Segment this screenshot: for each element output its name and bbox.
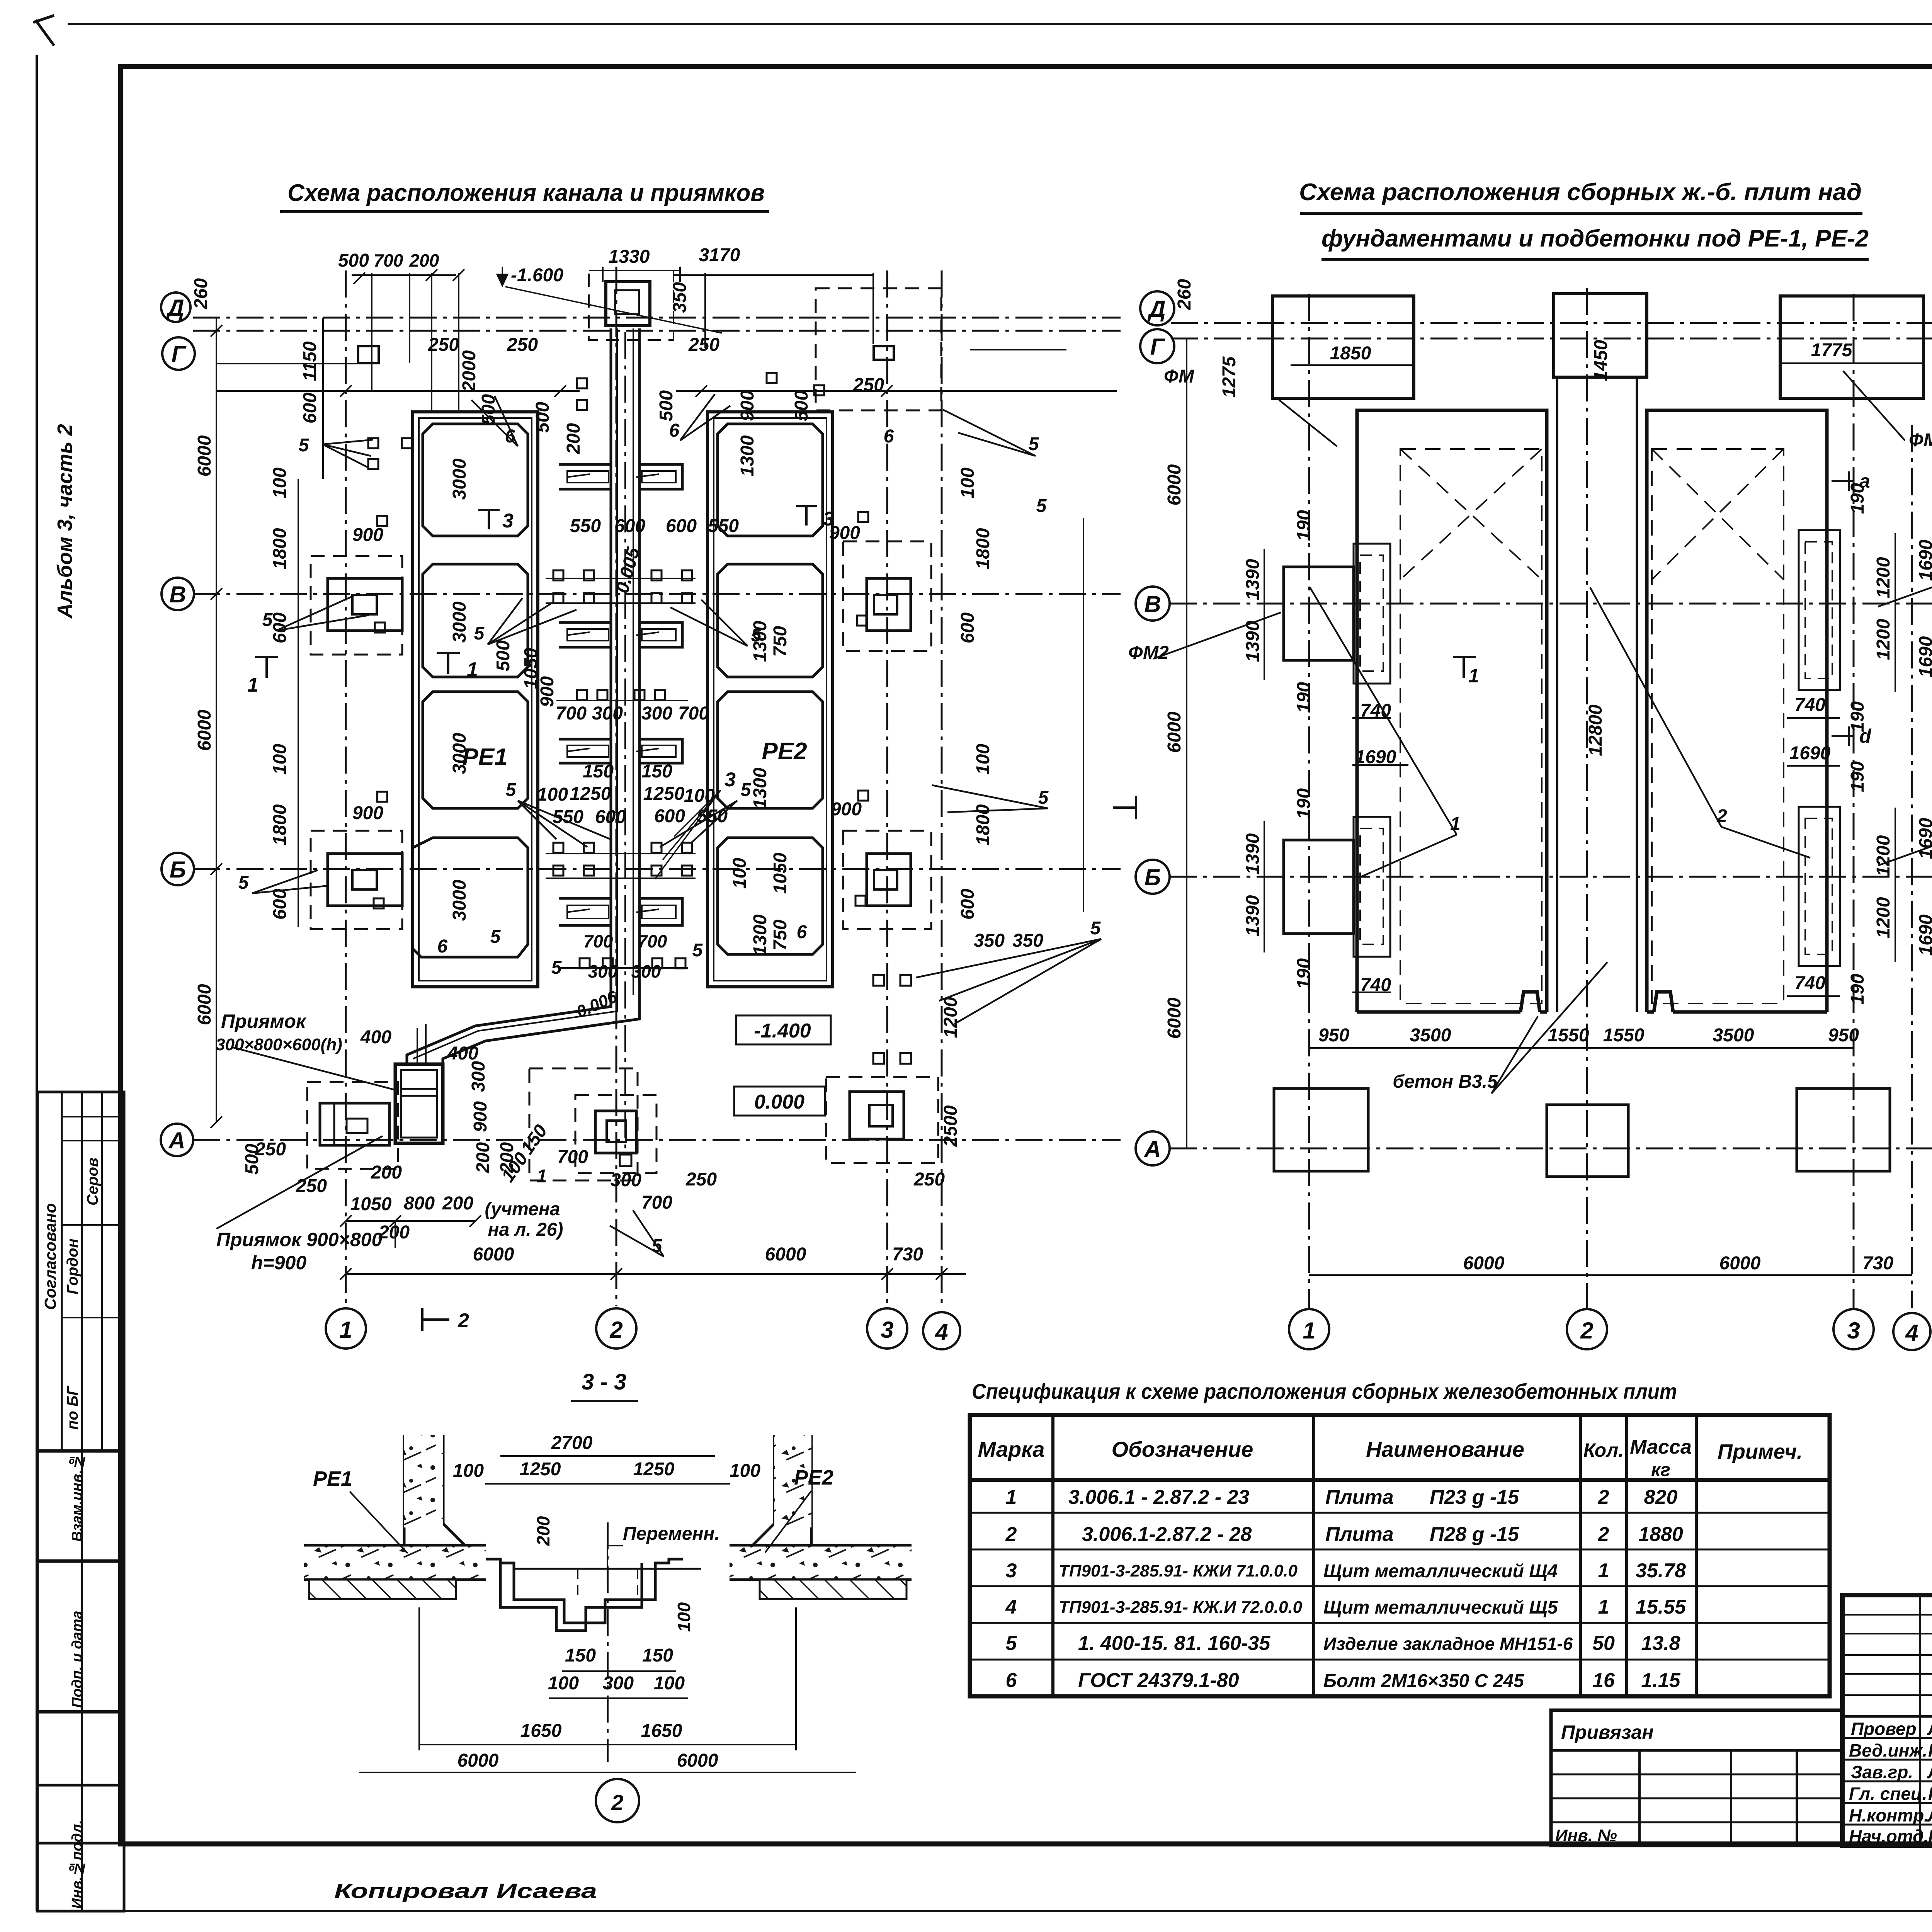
svg-text:350: 350 — [1012, 930, 1043, 951]
svg-text:3: 3 — [502, 510, 514, 532]
svg-text:400: 400 — [360, 1027, 391, 1048]
svg-text:1850: 1850 — [1330, 343, 1371, 364]
svg-text:1550: 1550 — [1603, 1025, 1645, 1046]
svg-text:1390: 1390 — [1243, 833, 1263, 874]
svg-text:900: 900 — [352, 525, 383, 545]
title block (stamp) — [334, 1595, 1932, 1903]
svg-text:1880: 1880 — [1638, 1523, 1683, 1546]
svg-text:100: 100 — [730, 1461, 760, 1481]
svg-text:200: 200 — [378, 1222, 410, 1243]
svg-text:550: 550 — [708, 516, 739, 536]
svg-text:a: a — [1859, 470, 1870, 492]
svg-text:3: 3 — [1847, 1318, 1860, 1344]
privyazan small table — [1551, 1710, 1842, 1845]
svg-text:250: 250 — [296, 1176, 327, 1196]
svg-text:6000: 6000 — [677, 1750, 718, 1771]
svg-text:190: 190 — [1847, 974, 1868, 1005]
svg-text:500: 500 — [791, 390, 812, 421]
svg-text:Серов: Серов — [84, 1158, 101, 1206]
svg-text:Инв. №: Инв. № — [1555, 1826, 1617, 1845]
svg-text:Щит металлический Щ5: Щит металлический Щ5 — [1323, 1597, 1558, 1618]
svg-text:Г: Г — [1150, 334, 1166, 360]
svg-text:Подп. и дата: Подп. и дата — [69, 1611, 85, 1708]
svg-text:1: 1 — [1303, 1318, 1315, 1344]
svg-text:3500: 3500 — [1410, 1025, 1451, 1046]
svg-text:3000: 3000 — [449, 733, 470, 774]
svg-text:2: 2 — [609, 1317, 622, 1343]
svg-text:1800: 1800 — [973, 528, 993, 569]
svg-text:П23 g -15: П23 g -15 — [1430, 1486, 1519, 1509]
svg-text:750: 750 — [770, 626, 791, 657]
svg-text:Спецификация к схеме располо: Спецификация к схеме расположения сборны… — [972, 1379, 1677, 1403]
svg-text:1050: 1050 — [350, 1194, 392, 1214]
svg-text:Провер: Провер — [1851, 1719, 1917, 1739]
PE2 block — [707, 412, 833, 987]
svg-text:1330: 1330 — [609, 247, 650, 267]
svg-text:250: 250 — [685, 1169, 717, 1190]
svg-text:300: 300 — [468, 1061, 489, 1092]
svg-text:190: 190 — [1294, 510, 1314, 541]
svg-text:0.000: 0.000 — [754, 1091, 804, 1113]
svg-text:2: 2 — [457, 1310, 469, 1332]
svg-text:13.8: 13.8 — [1641, 1632, 1680, 1655]
svg-text:200: 200 — [563, 423, 584, 454]
svg-text:1200: 1200 — [1873, 897, 1894, 938]
svg-text:260: 260 — [191, 278, 211, 310]
svg-text:200: 200 — [442, 1193, 473, 1214]
svg-text:600: 600 — [270, 612, 290, 643]
svg-text:6000: 6000 — [457, 1750, 499, 1771]
svg-text:900: 900 — [831, 799, 862, 820]
svg-text:5: 5 — [299, 435, 310, 456]
svg-text:Капустин: Капустин — [1928, 1740, 1932, 1760]
svg-text:2: 2 — [611, 1790, 623, 1815]
svg-text:6000: 6000 — [1164, 711, 1185, 753]
svg-text:200: 200 — [371, 1162, 402, 1183]
svg-text:А: А — [168, 1128, 185, 1153]
svg-text:П28 g -15: П28 g -15 — [1430, 1523, 1519, 1546]
small embedded squares — [368, 373, 911, 1166]
section marks — [255, 506, 817, 1331]
svg-text:300×800×600(h): 300×800×600(h) — [216, 1035, 342, 1054]
svg-text:6: 6 — [669, 420, 680, 441]
plan 1 dimensions — [191, 245, 1117, 1332]
svg-text:ФМ: ФМ — [1909, 430, 1932, 451]
svg-text:1: 1 — [1598, 1560, 1609, 1582]
svg-text:ФМ2: ФМ2 — [1128, 643, 1169, 663]
svg-text:600: 600 — [300, 393, 320, 423]
svg-text:600: 600 — [614, 516, 645, 536]
svg-text:1: 1 — [1006, 1486, 1017, 1509]
svg-text:16: 16 — [1592, 1669, 1615, 1692]
svg-text:1250: 1250 — [633, 1459, 675, 1480]
svg-text:250: 250 — [913, 1169, 945, 1190]
svg-text:190: 190 — [1847, 761, 1868, 792]
svg-text:6000: 6000 — [1164, 464, 1185, 505]
dim texts — [1128, 340, 1932, 1274]
svg-text:Зав.гр.: Зав.гр. — [1851, 1762, 1913, 1782]
main slab halves — [1357, 410, 1827, 1012]
channel bottom elbow to pit — [395, 995, 639, 1143]
svg-text:5: 5 — [692, 940, 703, 961]
svg-text:Примеч.: Примеч. — [1718, 1440, 1803, 1463]
boxed level labels — [736, 1015, 831, 1044]
bottom dim line — [346, 1273, 966, 1275]
svg-text:100: 100 — [674, 1602, 694, 1632]
svg-text:(учтена: (учтена — [485, 1199, 560, 1219]
priyamok labels — [216, 1010, 382, 1274]
svg-text:12800: 12800 — [1585, 704, 1606, 756]
svg-text:В: В — [169, 582, 186, 607]
svg-text:Н.контр.: Н.контр. — [1849, 1805, 1929, 1825]
svg-text:2500: 2500 — [940, 1105, 961, 1147]
svg-text:5: 5 — [1006, 1632, 1017, 1655]
svg-text:3: 3 — [1006, 1560, 1017, 1582]
svg-text:1050: 1050 — [770, 852, 791, 894]
svg-text:Альбом 3, часть 2: Альбом 3, часть 2 — [53, 424, 77, 619]
svg-text:150: 150 — [641, 761, 672, 782]
central channel — [486, 1559, 701, 1631]
svg-text:600: 600 — [654, 806, 685, 827]
svg-text:190: 190 — [1294, 958, 1314, 989]
svg-text:Масса: Масса — [1630, 1436, 1692, 1458]
svg-text:300: 300 — [592, 703, 623, 724]
svg-text:1250: 1250 — [520, 1459, 561, 1480]
svg-text:260: 260 — [1174, 279, 1195, 310]
svg-text:1: 1 — [1598, 1596, 1609, 1618]
svg-text:ТП901-3-285.91- КЖИ 71.0.0.0: ТП901-3-285.91- КЖИ 71.0.0.0 — [1059, 1561, 1298, 1580]
svg-text:150: 150 — [642, 1645, 673, 1666]
svg-text:100: 100 — [730, 858, 750, 889]
svg-text:100: 100 — [973, 744, 993, 775]
svg-text:100: 100 — [654, 1673, 685, 1694]
svg-text:6000: 6000 — [765, 1244, 806, 1265]
central channel lines — [1557, 377, 1637, 1012]
svg-text:Обозначение: Обозначение — [1112, 1437, 1253, 1461]
svg-text:150: 150 — [565, 1645, 596, 1666]
axes — [1170, 288, 1932, 1308]
leader fans — [216, 394, 1101, 1257]
svg-text:1450: 1450 — [1591, 340, 1611, 381]
svg-text:по БГ: по БГ — [64, 1385, 81, 1430]
svg-text:15.55: 15.55 — [1636, 1596, 1686, 1618]
svg-text:740: 740 — [1794, 973, 1825, 993]
svg-text:250: 250 — [507, 335, 538, 355]
svg-text:5: 5 — [1038, 787, 1049, 808]
svg-text:700: 700 — [583, 931, 613, 951]
PE1 block outer double rect — [413, 412, 538, 987]
svg-text:1150: 1150 — [300, 341, 320, 381]
svg-text:1. 400-15. 81. 160-35: 1. 400-15. 81. 160-35 — [1078, 1632, 1270, 1655]
svg-text:4: 4 — [1905, 1320, 1918, 1346]
inner dashed with diagonals — [1400, 449, 1784, 1003]
svg-text:600: 600 — [957, 612, 978, 643]
svg-text:250: 250 — [688, 335, 719, 355]
svg-text:Инв.№подл.: Инв.№подл. — [69, 1820, 85, 1909]
svg-text:2: 2 — [1598, 1523, 1609, 1546]
right column + slab mirrored — [730, 1435, 912, 1599]
svg-text:6000: 6000 — [194, 435, 215, 476]
svg-text:1200: 1200 — [940, 997, 961, 1038]
svg-text:0.006: 0.006 — [573, 987, 620, 1022]
svg-text:Пронин: Пронин — [1928, 1784, 1932, 1804]
svg-text:1: 1 — [339, 1317, 352, 1343]
pilasters left — [1284, 530, 1840, 966]
svg-text:700: 700 — [641, 1192, 672, 1213]
svg-text:500: 500 — [656, 390, 677, 421]
svg-text:1300: 1300 — [750, 914, 770, 956]
svg-text:700: 700 — [638, 931, 667, 951]
svg-text:900: 900 — [352, 803, 383, 823]
svg-text:300: 300 — [603, 1673, 634, 1694]
svg-text:1250: 1250 — [570, 784, 611, 804]
column footprints left side — [307, 288, 941, 1173]
svg-text:5: 5 — [238, 872, 249, 893]
svg-text:d: d — [1859, 725, 1872, 747]
svg-text:6000: 6000 — [1719, 1253, 1761, 1274]
axis lines horizontal — [193, 318, 1121, 1140]
svg-text:1390: 1390 — [1243, 895, 1263, 936]
svg-text:-1.400: -1.400 — [754, 1020, 811, 1042]
svg-text:1.15: 1.15 — [1641, 1669, 1680, 1692]
svg-text:1690: 1690 — [1916, 539, 1932, 581]
svg-text:550: 550 — [570, 516, 601, 536]
svg-text:Переменн.: Переменн. — [623, 1524, 720, 1544]
svg-text:820: 820 — [1644, 1486, 1678, 1509]
dims — [453, 1433, 760, 1771]
bottom squares — [1274, 1088, 1890, 1177]
left small grid — [1842, 1614, 1932, 1616]
svg-text:950: 950 — [1318, 1025, 1349, 1046]
svg-text:6: 6 — [884, 426, 894, 447]
svg-text:Копировал Исаева: Копировал Исаева — [334, 1879, 597, 1903]
svg-text:6000: 6000 — [473, 1244, 514, 1265]
svg-text:2: 2 — [1005, 1523, 1017, 1546]
svg-text:5: 5 — [551, 957, 562, 978]
svg-text:1800: 1800 — [270, 804, 290, 845]
svg-text:900: 900 — [470, 1101, 491, 1132]
svg-text:1200: 1200 — [1873, 619, 1894, 660]
svg-text:730: 730 — [1862, 1253, 1893, 1274]
svg-text:РЕ2: РЕ2 — [762, 738, 807, 765]
svg-text:Б: Б — [1145, 864, 1161, 890]
top dim lines — [352, 274, 456, 276]
svg-text:1250: 1250 — [643, 784, 685, 804]
svg-text:Гордон: Гордон — [64, 1238, 81, 1294]
svg-text:ГОСТ 24379.1-80: ГОСТ 24379.1-80 — [1078, 1669, 1239, 1692]
drawing titles — [280, 179, 1932, 1403]
svg-text:6000: 6000 — [194, 984, 215, 1025]
svg-text:6: 6 — [797, 922, 807, 942]
svg-text:Кол.: Кол. — [1583, 1439, 1624, 1461]
svg-text:Б: Б — [170, 857, 186, 883]
svg-text:1300: 1300 — [750, 767, 770, 809]
svg-text:Приямок: Приямок — [221, 1010, 307, 1032]
svg-text:50: 50 — [1592, 1632, 1615, 1655]
svg-text:Согласовано: Согласовано — [41, 1203, 60, 1310]
svg-text:600: 600 — [666, 516, 697, 536]
svg-text:190: 190 — [1294, 788, 1314, 819]
svg-text:740: 740 — [1794, 695, 1825, 715]
left margin table and album text — [37, 424, 124, 1911]
svg-text:2: 2 — [1598, 1486, 1609, 1509]
vertical dim chains — [216, 318, 217, 1122]
svg-text:1690: 1690 — [1355, 747, 1396, 767]
projection lines top — [354, 267, 873, 413]
svg-text:Болт 2М16×350 С 245: Болт 2М16×350 С 245 — [1323, 1671, 1524, 1691]
svg-text:1390: 1390 — [1243, 559, 1263, 600]
svg-text:500: 500 — [242, 1144, 262, 1175]
svg-text:Щит металлический Щ4: Щит металлический Щ4 — [1323, 1561, 1558, 1582]
big dashed region bottom middle — [529, 1068, 638, 1180]
left column + slab — [304, 1435, 486, 1599]
svg-text:А: А — [1143, 1136, 1161, 1162]
svg-text:3000: 3000 — [449, 601, 470, 643]
top fm rectangles — [1272, 294, 1923, 398]
svg-text:Изделие закладное МН151-6: Изделие закладное МН151-6 — [1323, 1634, 1573, 1654]
svg-text:3.006.1-2.87.2 - 28: 3.006.1-2.87.2 - 28 — [1082, 1523, 1252, 1546]
svg-text:3: 3 — [724, 769, 736, 791]
svg-text:900: 900 — [737, 390, 758, 421]
svg-text:100: 100 — [957, 468, 978, 498]
svg-text:200: 200 — [409, 250, 439, 270]
svg-text:5: 5 — [490, 927, 501, 947]
svg-text:100: 100 — [548, 1673, 579, 1694]
svg-text:100: 100 — [270, 468, 290, 498]
svg-text:800: 800 — [404, 1193, 435, 1214]
svg-text:Вед.инж.: Вед.инж. — [1849, 1740, 1927, 1760]
svg-text:950: 950 — [1828, 1025, 1859, 1046]
svg-text:1690: 1690 — [1789, 743, 1831, 764]
svg-text:Схема расположения канала: Схема расположения канала и приямков — [287, 180, 765, 206]
svg-text:1200: 1200 — [1873, 835, 1894, 876]
svg-text:1690: 1690 — [1916, 818, 1932, 859]
svg-text:35.78: 35.78 — [1636, 1560, 1686, 1582]
svg-text:1550: 1550 — [1548, 1025, 1589, 1046]
svg-text:1: 1 — [467, 658, 478, 681]
svg-text:300: 300 — [641, 703, 672, 724]
svg-text:Гл. спец.: Гл. спец. — [1849, 1784, 1927, 1804]
svg-text:Взам.инв.№: Взам.инв.№ — [69, 1454, 85, 1542]
dim lines — [1187, 323, 1932, 1275]
svg-text:6: 6 — [1006, 1669, 1017, 1692]
svg-text:350: 350 — [670, 282, 690, 313]
svg-text:Приямок 900×800: Приямок 900×800 — [216, 1229, 382, 1250]
svg-text:Нач.отд.: Нач.отд. — [1849, 1826, 1929, 1846]
svg-text:Левина: Левина — [1927, 1762, 1932, 1782]
svg-text:190: 190 — [1294, 682, 1314, 713]
axis circles letters — [161, 293, 960, 1349]
svg-text:2000: 2000 — [459, 350, 480, 392]
svg-text:200: 200 — [497, 1142, 517, 1173]
svg-text:750: 750 — [770, 920, 791, 951]
svg-text:3500: 3500 — [1713, 1025, 1754, 1046]
svg-text:100: 100 — [453, 1461, 484, 1481]
svg-text:6: 6 — [437, 936, 448, 957]
svg-text:3170: 3170 — [699, 245, 740, 265]
svg-text:Марка: Марка — [978, 1437, 1045, 1461]
svg-text:700: 700 — [557, 1147, 588, 1167]
central channel verticals — [611, 328, 639, 995]
svg-text:500: 500 — [493, 640, 514, 671]
svg-text:1300: 1300 — [737, 435, 758, 476]
svg-text:700: 700 — [374, 250, 403, 270]
svg-text:740: 740 — [1360, 975, 1391, 995]
specification table — [970, 1415, 1830, 1696]
svg-text:5: 5 — [506, 780, 517, 800]
svg-text:1775: 1775 — [1811, 340, 1853, 361]
svg-text:1: 1 — [1468, 665, 1479, 687]
svg-text:кг: кг — [1651, 1460, 1670, 1480]
svg-text:Плита: Плита — [1325, 1486, 1394, 1509]
top box — [606, 282, 650, 326]
svg-text:РЕ2: РЕ2 — [794, 1466, 833, 1489]
svg-text:1690: 1690 — [1916, 636, 1932, 677]
svg-text:1: 1 — [247, 674, 259, 696]
svg-text:5: 5 — [1090, 918, 1101, 939]
svg-text:ФМ: ФМ — [1164, 366, 1194, 387]
svg-text:100: 100 — [537, 784, 568, 805]
svg-text:6000: 6000 — [1164, 997, 1185, 1039]
svg-text:Письман: Письман — [1928, 1826, 1932, 1846]
svg-text:Г: Г — [172, 341, 187, 367]
dim underlines for 740/1690 — [1352, 718, 1840, 996]
svg-text:Д: Д — [1147, 296, 1165, 322]
svg-text:2700: 2700 — [551, 1433, 593, 1453]
svg-text:600: 600 — [270, 889, 290, 920]
svg-text:1200: 1200 — [1873, 557, 1894, 598]
svg-text:5: 5 — [1029, 434, 1039, 454]
svg-text:300: 300 — [611, 1170, 641, 1190]
svg-text:-1.600: -1.600 — [511, 265, 563, 286]
svg-text:250: 250 — [428, 335, 459, 355]
section marks — [1113, 471, 1853, 819]
svg-text:1650: 1650 — [520, 1721, 562, 1741]
svg-text:1690: 1690 — [1916, 914, 1932, 956]
svg-text:200: 200 — [473, 1142, 493, 1173]
svg-text:на л. 26): на л. 26) — [488, 1219, 563, 1240]
svg-text:бетон В3.5: бетон В3.5 — [1393, 1071, 1498, 1092]
svg-text:1: 1 — [537, 1166, 547, 1187]
svg-text:3000: 3000 — [449, 879, 470, 921]
svg-text:4: 4 — [935, 1319, 948, 1345]
svg-text:900: 900 — [537, 676, 558, 707]
leaders — [1153, 371, 1932, 1094]
svg-text:730: 730 — [892, 1244, 923, 1265]
svg-text:300: 300 — [631, 961, 661, 981]
plan: precast slabs over foundations — [1113, 279, 1932, 1350]
svg-text:150: 150 — [583, 761, 614, 782]
svg-text:500: 500 — [532, 402, 553, 433]
svg-text:Левина: Левина — [1927, 1719, 1932, 1739]
svg-text:300: 300 — [588, 961, 618, 981]
svg-text:3: 3 — [881, 1317, 893, 1343]
svg-text:5: 5 — [1036, 496, 1047, 516]
svg-text:фундаментами и подбетонки п: фундаментами и подбетонки под РЕ-1, РЕ-2 — [1321, 225, 1869, 252]
svg-text:Привязан: Привязан — [1561, 1721, 1654, 1743]
svg-text:350: 350 — [974, 930, 1005, 951]
svg-text:400: 400 — [447, 1043, 478, 1064]
svg-text:1800: 1800 — [270, 528, 290, 569]
svg-text:1650: 1650 — [641, 1721, 682, 1741]
svg-text:3: 3 — [823, 508, 834, 530]
svg-text:3 - 3: 3 - 3 — [582, 1369, 626, 1395]
svg-text:150: 150 — [517, 1121, 552, 1158]
svg-text:500: 500 — [338, 250, 369, 271]
plan: channel and pits layout — [161, 267, 1121, 1349]
PE1 cells — [413, 424, 528, 957]
cross arms — [559, 464, 682, 925]
